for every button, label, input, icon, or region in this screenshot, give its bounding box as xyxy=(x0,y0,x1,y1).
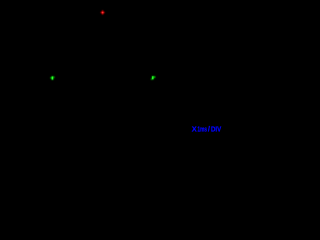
green marker right bright core xyxy=(152,76,153,79)
red cross bright core xyxy=(102,12,104,14)
black background xyxy=(0,0,225,135)
red cross marker (trace point), center (102.6,12.5) xyxy=(101,10,105,14)
green marker right, center (153.0,78.0) xyxy=(151,76,156,80)
green marker left bright core xyxy=(52,77,53,80)
svg-text:X1ms/DIV: X1ms/DIV xyxy=(192,125,222,134)
green marker left, center (52.3,77.8) xyxy=(50,76,54,80)
